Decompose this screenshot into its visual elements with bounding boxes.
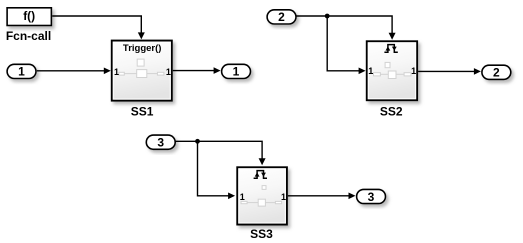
SS2 preview left port rect (374, 73, 381, 76)
outport oval 1 (222, 64, 251, 78)
svg-text:SS3: SS3 (250, 227, 273, 241)
wire branch to SS2 inport (327, 16, 365, 74)
svg-text:f(): f() (23, 9, 35, 23)
inport oval 3 (146, 135, 175, 149)
wire branch to SS3 inport (198, 141, 236, 199)
junction dot 2 (325, 14, 330, 19)
wire SS1 to outport1 (173, 67, 221, 74)
svg-text:3: 3 (157, 136, 164, 150)
SS3 preview left port rect (241, 201, 247, 203)
wire inport2 to SS2 trigger (296, 16, 396, 40)
subsystem SS2 (367, 41, 417, 100)
subsystem SS1 (112, 41, 172, 101)
wire SS3 to outport3 (288, 193, 356, 200)
SS3 preview right port rect (275, 201, 281, 203)
junction dot 3 (195, 139, 200, 144)
outport oval 2 (482, 65, 511, 79)
svg-text:2: 2 (278, 10, 285, 24)
svg-text:SS2: SS2 (380, 104, 403, 118)
wire f() to SS1 trigger (52, 16, 145, 39)
svg-text:1: 1 (368, 66, 373, 76)
inport oval 1 (7, 64, 36, 78)
SS1 preview upper square (137, 59, 144, 66)
SS3 preview center square (258, 199, 265, 206)
subsystem SS3 (237, 167, 287, 224)
SS3 preview connect lines (247, 202, 258, 204)
svg-text:1: 1 (411, 66, 416, 76)
svg-text:1: 1 (233, 65, 240, 79)
SS1 preview center square (137, 70, 147, 78)
svg-text:1: 1 (166, 67, 171, 77)
svg-text:3: 3 (368, 190, 375, 204)
svg-text:1: 1 (240, 192, 245, 202)
wire inport3 to SS3 trigger (175, 141, 265, 165)
SS3 trigger icon (254, 171, 267, 179)
wire SS2 to outport2 (418, 68, 481, 75)
wire inport1 to SS1 (37, 68, 111, 75)
svg-text:2: 2 (493, 66, 500, 80)
svg-text:1: 1 (18, 65, 25, 79)
svg-text:Fcn-call: Fcn-call (6, 29, 51, 43)
SS1 preview right port rect (157, 72, 164, 75)
SS2 preview connect lines (380, 73, 388, 75)
SS1 preview connect lines (124, 73, 136, 75)
SS3 preview upper square (262, 186, 266, 190)
svg-text:1: 1 (114, 67, 119, 77)
function-call generator block f() (7, 8, 51, 26)
svg-text:SS1: SS1 (131, 105, 154, 119)
SS2 preview right port rect (404, 73, 411, 76)
SS2 preview center square (388, 71, 396, 79)
svg-text:1: 1 (281, 192, 286, 202)
SS2 trigger icon (384, 45, 397, 53)
outport oval 3 (357, 189, 386, 203)
SS2 preview upper square (385, 62, 390, 67)
SS1 preview left port rect (119, 72, 125, 75)
svg-text:Trigger(): Trigger() (123, 43, 162, 54)
inport oval 2 (267, 10, 296, 24)
